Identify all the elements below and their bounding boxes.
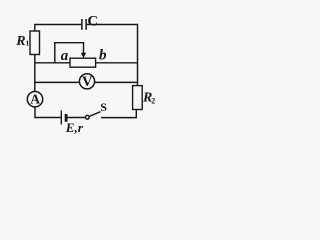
slider arrowhead bbox=[81, 53, 86, 58]
wire: rheostat b-terminal to right rail bbox=[96, 62, 138, 64]
wire: switch to battery bbox=[67, 117, 85, 119]
svg-text:b: b bbox=[99, 48, 107, 64]
wire: slider tap (up, left, down to a-wire) bbox=[55, 43, 84, 63]
voltmeter V bbox=[79, 74, 94, 89]
capacitor C (right plate) bbox=[85, 19, 87, 30]
switch S lever bbox=[89, 112, 100, 117]
wire: ammeter top to R1 bottom bbox=[34, 54, 36, 91]
ammeter A bbox=[27, 92, 42, 107]
wire: capacitor to top-right corner bbox=[87, 24, 138, 26]
rheostat box a-b bbox=[70, 58, 96, 67]
capacitor C (left plate) bbox=[81, 19, 83, 30]
resistor R1 bbox=[30, 31, 40, 55]
wire: voltmeter line left segment bbox=[35, 81, 138, 83]
svg-text:V: V bbox=[82, 74, 93, 90]
svg-text:S: S bbox=[100, 100, 107, 114]
svg-text:A: A bbox=[30, 91, 40, 106]
wire: rheostat a-terminal from left rail bbox=[35, 62, 70, 64]
wire: right rail down to R2 top bbox=[137, 24, 139, 86]
svg-text:a: a bbox=[61, 48, 69, 64]
battery negative plate (short thick) bbox=[65, 114, 68, 122]
svg-text:2: 2 bbox=[151, 97, 155, 106]
svg-text:R: R bbox=[15, 34, 25, 49]
switch S pivot contact bbox=[85, 115, 89, 119]
battery positive plate (long) bbox=[60, 111, 62, 125]
svg-text:C: C bbox=[87, 14, 98, 30]
wire: battery to ammeter riser bbox=[35, 107, 61, 118]
wire: top-left corner from R1 top to capacitor bbox=[35, 25, 81, 32]
wire: R2 bottom to bottom rail corner bbox=[101, 110, 136, 118]
resistor R2 bbox=[133, 86, 143, 110]
svg-text:1: 1 bbox=[26, 39, 30, 48]
svg-text:E,r: E,r bbox=[65, 120, 84, 134]
